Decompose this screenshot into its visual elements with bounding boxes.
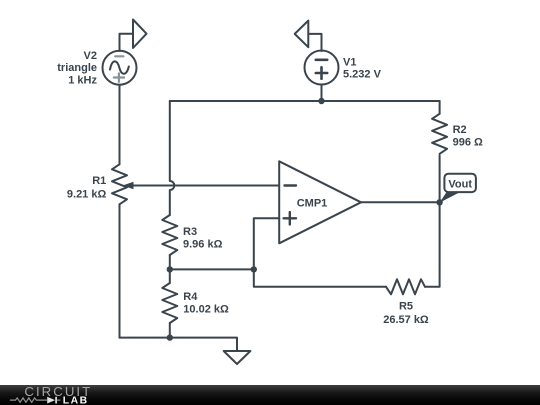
svg-text:9.21 kΩ: 9.21 kΩ: [67, 189, 107, 201]
V2 sine wave: [110, 61, 129, 73]
svg-text:R1: R1: [92, 175, 106, 187]
CMP1 plus: [284, 212, 296, 224]
CircuitLab footer bar: [0, 385, 540, 405]
V1 plus: [316, 67, 327, 78]
wire R3 bottom to node: [169, 255, 171, 283]
svg-text:R4: R4: [183, 291, 198, 303]
svg-text:V2: V2: [84, 50, 97, 62]
wire V2 bottom to R1: [119, 85, 121, 165]
junction dot Vout node: [436, 199, 442, 205]
svg-text:5.232 V: 5.232 V: [343, 69, 382, 81]
V2 minus (gray): [115, 55, 123, 57]
resistor R3 zigzag: [162, 215, 177, 255]
svg-text:CMP1: CMP1: [297, 198, 328, 210]
V2 plus (gray): [114, 73, 124, 82]
Vout flag tail: [440, 192, 460, 203]
logo resistor zigzag: [10, 398, 47, 402]
wire R1 bottom to bottom rail: [119, 204, 121, 337]
svg-text:V1: V1: [343, 56, 356, 68]
wire V1 top to flag: [308, 34, 321, 51]
svg-text:10.02 kΩ: 10.02 kΩ: [183, 303, 229, 315]
svg-text:triangle: triangle: [57, 62, 97, 74]
wire mid node to plus node: [170, 268, 254, 270]
resistor R1 zigzag: [112, 164, 127, 204]
op-amp CMP1: [279, 161, 361, 243]
junction dot plus node: [251, 266, 257, 272]
wire top rail: [170, 100, 440, 102]
wire R1 wiper to CMP1 minus: [133, 185, 279, 187]
svg-text:R5: R5: [399, 301, 413, 313]
CMP1 minus: [285, 184, 297, 186]
wire V1 bottom to top rail: [321, 85, 323, 102]
flag arrow V1: [295, 21, 309, 48]
flag arrow V2: [133, 20, 147, 49]
junction dot bottom rail: [167, 334, 173, 340]
svg-text:9.96 kΩ: 9.96 kΩ: [183, 238, 223, 250]
wire bottom rail: [120, 338, 238, 351]
wiper arrow R1: [123, 182, 134, 190]
svg-text:R2: R2: [453, 124, 467, 136]
Vout flag box: [444, 174, 476, 192]
logo diode: [47, 397, 55, 404]
wire top rail corner to R2: [439, 101, 441, 114]
wire R4 bottom: [169, 323, 171, 338]
V1 minus: [316, 58, 327, 61]
wire plus input: [254, 218, 279, 269]
resistor R4 zigzag: [162, 283, 177, 323]
svg-text:26.57 kΩ: 26.57 kΩ: [383, 314, 429, 326]
junction dot R3/R4: [167, 266, 173, 272]
wire plus node down to R5 rail: [254, 269, 386, 286]
svg-text:Vout: Vout: [448, 178, 472, 190]
resistor R5 zigzag: [386, 279, 425, 294]
svg-text:R3: R3: [183, 226, 197, 238]
wire R5 to right vertical: [425, 155, 440, 286]
ground: [224, 351, 251, 364]
resistor R2 zigzag: [432, 114, 447, 154]
junction dot V1/top rail: [318, 98, 324, 104]
wire CMP1 output: [361, 201, 440, 203]
voltage source V2 circle: [103, 51, 137, 85]
svg-text:996 Ω: 996 Ω: [453, 136, 483, 148]
voltage source V1 circle: [305, 51, 339, 85]
wire V2 top to flag: [120, 34, 134, 51]
svg-text:1 kHz: 1 kHz: [68, 74, 97, 86]
wire left vertical with hop: [170, 101, 175, 215]
